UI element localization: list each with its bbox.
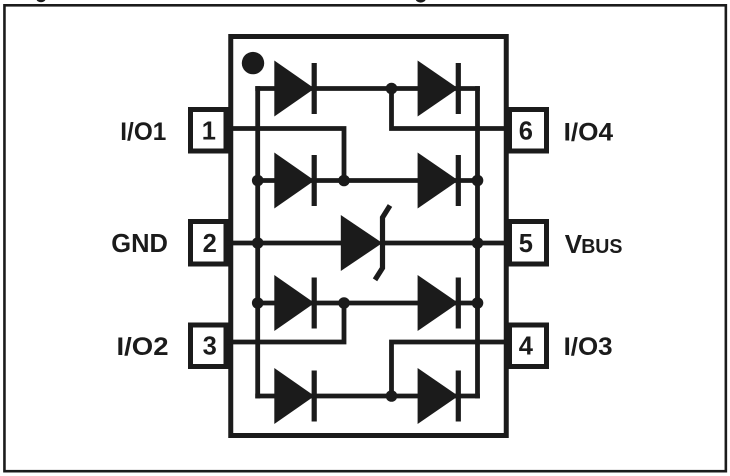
pin 1 marker dot	[242, 52, 264, 74]
wire: row D (I/O3 diode row)	[255, 394, 480, 399]
svg-text:2: 2	[203, 230, 217, 258]
svg-text:6: 6	[519, 118, 533, 146]
junction: VBUS wire / VBUS rail	[472, 237, 484, 249]
diode D5 (row C left, GND to I/O2)	[274, 275, 317, 331]
wire: pin 3 to row C node	[227, 303, 344, 342]
wire: VBUS rail (right vertical)	[475, 86, 480, 398]
diode D1 (row A left, GND to I/O4)	[274, 61, 317, 117]
pin 5	[510, 222, 547, 265]
junction: row C / VBUS rail	[472, 297, 484, 309]
junction: row B / pin 1	[338, 175, 350, 187]
svg-text:GND: GND	[111, 230, 168, 258]
svg-text:1: 1	[202, 118, 216, 146]
wire: GND from pin 2 to zener anode	[227, 241, 346, 246]
svg-text:4: 4	[519, 333, 534, 361]
junction: GND wire / GND rail	[252, 237, 264, 249]
pin 2	[191, 222, 227, 265]
junction: row C / GND rail	[252, 297, 264, 309]
wire: VBUS from zener cathode to pin 5	[382, 241, 509, 246]
svg-text:I/O2: I/O2	[117, 333, 169, 361]
svg-text:I/O3: I/O3	[564, 333, 613, 361]
diode D6 (row C right, I/O2 to VBUS)	[418, 275, 461, 331]
pin 3	[191, 325, 227, 367]
IC package outline U1	[231, 37, 507, 436]
wire: pin 1 to row B node	[227, 129, 344, 181]
diode D8 (row D right, I/O3 to VBUS)	[418, 368, 461, 424]
junction: row B / GND rail	[252, 175, 264, 187]
junction: row C / pin 3	[338, 297, 350, 309]
wire: GND rail (left vertical)	[255, 86, 260, 398]
wire: row B (I/O1 diode row)	[258, 178, 478, 183]
svg-text:5: 5	[519, 230, 533, 258]
pin 4	[510, 325, 547, 367]
diode D7 (row D left, GND to I/O3)	[274, 368, 317, 424]
diode D2 (row A right, I/O4 to VBUS)	[418, 61, 461, 117]
junction: row A / pin 6	[386, 83, 398, 95]
pin 1	[191, 110, 227, 152]
svg-text:I/O1: I/O1	[120, 118, 166, 146]
zener diode DZ (GND to VBUS)	[341, 206, 390, 280]
diode D4 (row B right, I/O1 to VBUS)	[418, 153, 461, 209]
wire: row C (I/O2 diode row)	[258, 301, 478, 306]
svg-text:BUS: BUS	[581, 236, 622, 258]
svg-text:3: 3	[203, 333, 217, 361]
wire: pin 4 to row D node	[392, 342, 510, 396]
pin 6	[510, 110, 547, 152]
junction: row B / VBUS rail	[472, 175, 484, 187]
wire: pin 6 to row A node	[392, 89, 510, 129]
wire: row A (I/O4 diode row)	[255, 86, 480, 91]
diode D3 (row B left, GND to I/O1)	[274, 153, 317, 209]
net label VBUS	[565, 229, 623, 259]
junction: row D / pin 4	[386, 390, 398, 402]
svg-text:V: V	[565, 229, 583, 259]
svg-text:I/O4: I/O4	[564, 119, 614, 147]
